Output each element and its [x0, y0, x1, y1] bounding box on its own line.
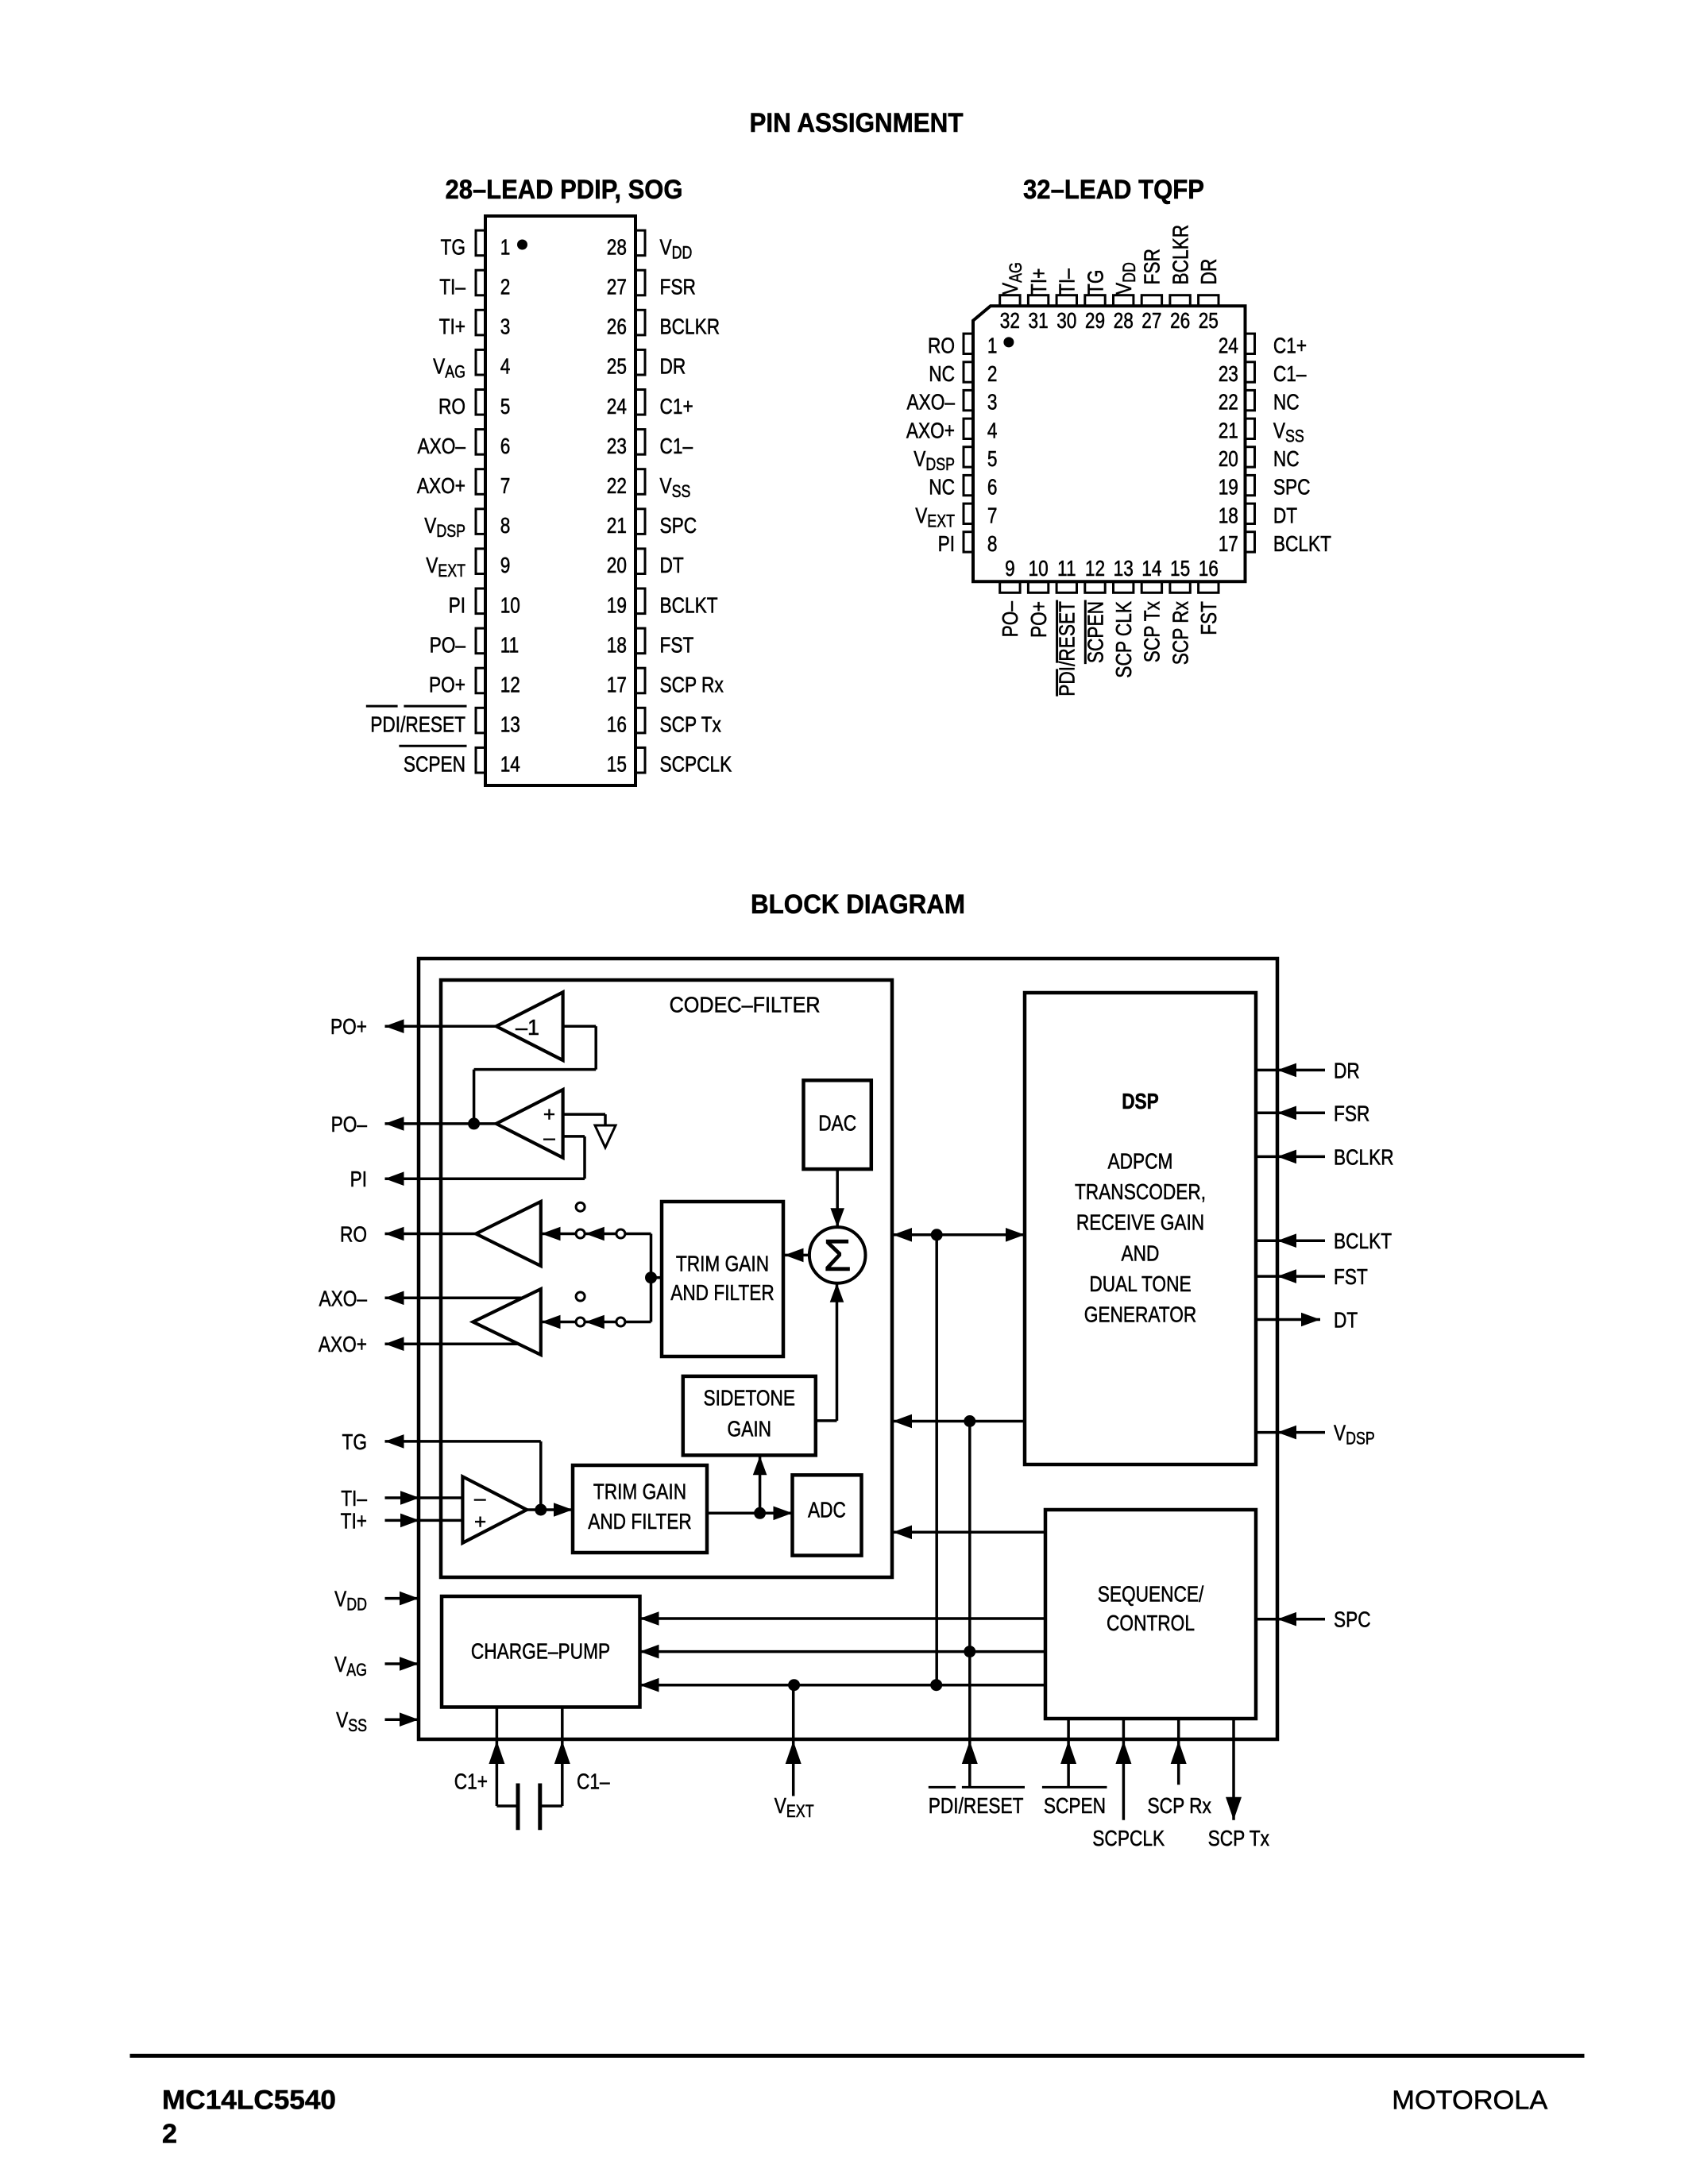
svg-text:V: V	[1273, 418, 1285, 442]
summing node sigma	[809, 1227, 866, 1283]
svg-text:8: 8	[500, 513, 511, 538]
svg-text:SPC: SPC	[660, 513, 697, 538]
TQFP pin 14 name SCP Tx	[1140, 601, 1165, 662]
PDIP pin 10 lead	[476, 588, 486, 614]
svg-text:AG: AG	[445, 362, 465, 382]
svg-text:TI+: TI+	[1026, 268, 1051, 295]
TQFP pin 28 name VDD	[1111, 262, 1139, 295]
svg-text:DSP: DSP	[436, 521, 465, 541]
block CHARGE-PUMP	[442, 1596, 640, 1707]
svg-text:AG: AG	[346, 1660, 367, 1680]
TQFP pin 3 lead	[964, 390, 973, 410]
svg-text:V: V	[424, 513, 436, 538]
TQFP pin 9 name PO–	[998, 601, 1022, 638]
PDIP pin 5 lead	[476, 390, 486, 415]
junction sidetone tap	[754, 1507, 766, 1519]
PDIP pin 2 lead	[476, 270, 486, 295]
port BCLKT label and arrow	[1256, 1239, 1325, 1242]
junction row2/PDI	[964, 1646, 975, 1657]
svg-text:EXT: EXT	[927, 511, 955, 531]
svg-text:PI: PI	[938, 531, 955, 556]
block CODEC-FILTER	[441, 980, 892, 1577]
wire switch to AXO amp with arrows	[541, 1321, 576, 1324]
svg-text:30: 30	[1056, 308, 1076, 333]
PDIP pin 7 lead	[476, 469, 486, 495]
svg-text:RO: RO	[438, 394, 465, 419]
svg-text:BCLKT: BCLKT	[1334, 1229, 1392, 1253]
op-amp A3 RO driver	[476, 1202, 541, 1266]
junction bus A	[931, 1229, 943, 1241]
svg-text:EXT: EXT	[438, 561, 465, 581]
svg-text:TRANSCODER,: TRANSCODER,	[1075, 1179, 1206, 1204]
svg-text:SCP Rx: SCP Rx	[1168, 601, 1192, 665]
svg-text:PO+: PO+	[330, 1014, 367, 1039]
svg-text:17: 17	[1219, 531, 1238, 556]
TQFP pin 18 lead	[1246, 504, 1255, 523]
TQFP pin 10 name PO+	[1026, 601, 1051, 638]
svg-text:DR: DR	[660, 354, 686, 379]
TQFP pin 12 lead	[1085, 582, 1105, 593]
switch RO contact circles	[576, 1202, 585, 1211]
op-amp A2 PO- driver	[496, 1090, 563, 1158]
svg-text:BCLKR: BCLKR	[1168, 225, 1192, 285]
TQFP pin 11 name PDI/RESET	[1055, 600, 1080, 696]
TQFP pin 26 lead	[1170, 295, 1190, 307]
TQFP pin 21 lead	[1246, 419, 1255, 438]
wire SEQUENCE to CHARGE-PUMP row 2	[640, 1650, 1046, 1653]
svg-text:SPC: SPC	[1334, 1607, 1371, 1632]
svg-text:4: 4	[500, 354, 511, 379]
svg-text:RECEIVE GAIN: RECEIVE GAIN	[1076, 1210, 1204, 1235]
svg-text:3: 3	[987, 390, 998, 415]
wire SEQUENCE to CHARGE-PUMP row 3	[640, 1684, 1046, 1687]
TQFP pin 13 lead	[1114, 582, 1134, 593]
TQFP pin 15 name SCP Rx	[1168, 601, 1192, 665]
svg-text:11: 11	[1057, 556, 1076, 581]
svg-text:CODEC–FILTER: CODEC–FILTER	[670, 992, 821, 1017]
svg-text:TG: TG	[441, 234, 466, 259]
port TG label and arrow	[385, 1434, 404, 1449]
TQFP pin 2 lead	[964, 362, 973, 382]
svg-text:V: V	[774, 1793, 786, 1818]
TQFP pin 4 lead	[964, 419, 973, 438]
wire A1 feedback to PO- node	[563, 1024, 597, 1028]
svg-text:31: 31	[1029, 308, 1049, 333]
svg-text:ADC: ADC	[808, 1498, 846, 1522]
svg-text:PO–: PO–	[998, 601, 1022, 638]
junction row3/VEXT	[788, 1679, 800, 1691]
svg-text:18: 18	[1219, 503, 1238, 527]
svg-text:TI–: TI–	[439, 275, 465, 299]
svg-text:V: V	[334, 1587, 346, 1611]
junction TRIM output	[645, 1271, 657, 1283]
block TRIM GAIN AND FILTER (transmit)	[573, 1465, 707, 1553]
TQFP pin 30 name TI–	[1055, 268, 1080, 295]
wire DSP to CODEC (receive)	[893, 1420, 1025, 1423]
svg-text:PIN ASSIGNMENT: PIN ASSIGNMENT	[750, 108, 964, 138]
svg-text:14: 14	[500, 752, 520, 777]
TQFP pin 12 name SCPEN	[1083, 600, 1107, 665]
svg-text:MOTOROLA: MOTOROLA	[1392, 2086, 1547, 2115]
wire AXO+ to op-amp A4	[385, 1342, 519, 1345]
TQFP pin 15 lead	[1170, 582, 1190, 593]
port PI label and arrow	[385, 1171, 404, 1186]
svg-text:25: 25	[607, 354, 627, 379]
svg-text:25: 25	[1199, 308, 1219, 333]
svg-text:28: 28	[607, 234, 627, 259]
svg-text:DSP: DSP	[1346, 1429, 1375, 1449]
op-amp A4 AXO driver	[473, 1289, 541, 1355]
svg-text:5: 5	[987, 446, 998, 471]
svg-text:C1–: C1–	[1273, 361, 1307, 386]
wire SIDETONE GAIN to sigma node	[816, 1419, 837, 1422]
wire AXO- to op-amp A4	[385, 1297, 523, 1300]
TQFP pin 22 lead	[1246, 390, 1255, 410]
svg-text:23: 23	[607, 434, 627, 458]
block TRIM GAIN AND FILTER (receive)	[662, 1202, 783, 1356]
PDIP pin 4 lead	[476, 349, 486, 375]
wire TG to A5 output node	[385, 1440, 541, 1443]
op-amp A5 TI input amp	[462, 1476, 527, 1543]
PDIP pin 22 lead	[635, 469, 646, 495]
block SIDETONE GAIN	[683, 1376, 816, 1456]
svg-text:CONTROL: CONTROL	[1107, 1611, 1195, 1635]
svg-text:22: 22	[607, 473, 627, 498]
port SCP Rx	[1177, 1719, 1180, 1785]
svg-text:1: 1	[987, 333, 998, 357]
PDIP pin 20 lead	[635, 549, 646, 574]
svg-text:12: 12	[1085, 556, 1105, 581]
svg-text:22: 22	[1219, 390, 1238, 415]
svg-text:RO: RO	[340, 1222, 367, 1247]
svg-text:NC: NC	[929, 475, 955, 500]
svg-text:AXO–: AXO–	[907, 390, 956, 415]
port FST label and arrow	[1256, 1275, 1325, 1278]
svg-text:SCPCLK: SCPCLK	[660, 752, 732, 777]
svg-text:8: 8	[987, 531, 998, 556]
port PO+ label and arrow	[385, 1019, 404, 1033]
svg-text:EXT: EXT	[786, 1801, 814, 1821]
svg-text:AND: AND	[1122, 1241, 1160, 1265]
capacitor C1	[496, 1804, 518, 1808]
svg-text:SCP CLK: SCP CLK	[1111, 601, 1136, 678]
TQFP pin 32 name VAG	[998, 262, 1026, 295]
svg-text:V: V	[426, 553, 438, 577]
svg-text:23: 23	[1219, 361, 1238, 386]
TQFP pin 29 lead	[1085, 295, 1105, 307]
svg-text:TRIM GAIN: TRIM GAIN	[676, 1251, 769, 1275]
ground symbol	[604, 1114, 607, 1125]
svg-text:21: 21	[1219, 418, 1238, 442]
svg-text:15: 15	[607, 752, 627, 777]
svg-text:C1–: C1–	[660, 434, 693, 458]
svg-text:V: V	[334, 1652, 346, 1677]
svg-text:SCPEN: SCPEN	[404, 752, 465, 777]
port AXO- label and arrow	[385, 1291, 404, 1306]
TQFP pin 7 lead	[964, 504, 973, 523]
svg-text:AXO–: AXO–	[418, 434, 466, 458]
TQFP pin 29 name TG	[1083, 270, 1107, 295]
TQFP pin 32 lead	[1000, 295, 1020, 307]
svg-text:DAC: DAC	[818, 1110, 856, 1135]
svg-text:AXO–: AXO–	[319, 1286, 368, 1310]
svg-text:ADPCM: ADPCM	[1108, 1149, 1173, 1174]
svg-text:15: 15	[1170, 556, 1190, 581]
svg-text:SS: SS	[1285, 426, 1304, 446]
PDIP pin 13 lead	[476, 708, 486, 733]
svg-text:SPC: SPC	[1273, 475, 1311, 500]
TQFP pin 28 lead	[1114, 295, 1134, 307]
svg-text:24: 24	[607, 394, 627, 419]
wire PO+ to op-amp A1	[385, 1024, 496, 1028]
PDIP pin 14 lead	[476, 747, 486, 773]
svg-text:7: 7	[987, 503, 998, 527]
PDIP pin 16 lead	[635, 708, 646, 733]
svg-text:V: V	[1111, 283, 1136, 295]
TQFP package body U2	[973, 306, 1246, 581]
svg-text:V: V	[915, 503, 927, 527]
svg-text:4: 4	[987, 418, 998, 442]
port RO label and arrow	[385, 1227, 404, 1241]
wire TRIM(transmit) output to ADC	[707, 1512, 793, 1515]
svg-text:+: +	[474, 1510, 486, 1534]
wire vertical bus B down (PDI/RESET)	[968, 1422, 971, 1787]
junction bus B	[964, 1415, 975, 1427]
svg-text:BCLKT: BCLKT	[660, 592, 718, 617]
svg-text:TRIM GAIN: TRIM GAIN	[593, 1480, 686, 1504]
svg-text:AND FILTER: AND FILTER	[670, 1280, 774, 1305]
PDIP package body U1	[485, 216, 635, 785]
PDIP pin 8 lead	[476, 509, 486, 534]
TQFP pin 25 lead	[1199, 295, 1219, 307]
svg-text:FST: FST	[660, 632, 694, 657]
svg-text:CHARGE–PUMP: CHARGE–PUMP	[471, 1639, 610, 1664]
svg-text:RO: RO	[928, 333, 955, 357]
TQFP pin 16 lead	[1199, 582, 1219, 593]
svg-text:21: 21	[607, 513, 627, 538]
svg-text:AND FILTER: AND FILTER	[588, 1509, 692, 1534]
wire RO to op-amp A3	[385, 1233, 477, 1236]
PDIP pin 15 lead	[635, 747, 646, 773]
svg-text:28: 28	[1114, 308, 1134, 333]
wire DAC to sigma node	[836, 1169, 839, 1227]
svg-text:GENERATOR: GENERATOR	[1084, 1302, 1197, 1327]
block DAC	[804, 1080, 871, 1169]
wire sigma to TRIM(receive)	[783, 1254, 809, 1257]
TQFP pin 31 name TI+	[1026, 268, 1051, 295]
wire C1- from charge pump	[561, 1707, 564, 1807]
svg-text:DR: DR	[1334, 1058, 1360, 1082]
svg-text:26: 26	[607, 314, 627, 339]
port SCP Tx (output)	[1232, 1719, 1235, 1820]
svg-text:10: 10	[500, 592, 520, 617]
bus CODEC to DSP bidirectional	[893, 1233, 1025, 1237]
TQFP pin 8 lead	[964, 532, 973, 552]
TQFP pin 11 lead	[1056, 582, 1076, 593]
svg-text:20: 20	[607, 553, 627, 577]
TQFP pin 27 lead	[1141, 295, 1161, 307]
svg-text:24: 24	[1219, 333, 1238, 357]
svg-text:FSR: FSR	[1334, 1101, 1369, 1125]
svg-text:SCP Tx: SCP Tx	[1140, 601, 1165, 662]
svg-text:1: 1	[500, 234, 511, 259]
svg-text:C1–: C1–	[577, 1769, 610, 1794]
TQFP pin 1 lead	[964, 334, 973, 353]
port VDSP label and arrow	[1256, 1431, 1325, 1434]
svg-text:DSP: DSP	[1122, 1089, 1159, 1113]
svg-text:SCPCLK: SCPCLK	[1092, 1826, 1165, 1850]
svg-text:DD: DD	[1119, 262, 1139, 283]
svg-text:16: 16	[1199, 556, 1219, 581]
svg-text:–: –	[474, 1486, 486, 1510]
svg-text:29: 29	[1085, 308, 1105, 333]
PDIP pin 1 lead	[476, 230, 486, 256]
PDIP pin 1 index dot	[517, 240, 527, 250]
svg-text:2: 2	[987, 361, 998, 386]
PDIP pin 19 lead	[635, 588, 646, 614]
svg-text:9: 9	[500, 553, 511, 577]
svg-text:C1+: C1+	[1273, 333, 1307, 357]
svg-text:V: V	[660, 473, 672, 498]
svg-text:AXO+: AXO+	[417, 473, 465, 498]
PDIP pin 11 lead	[476, 628, 486, 654]
svg-text:BCLKT: BCLKT	[1273, 531, 1331, 556]
svg-text:+: +	[543, 1102, 555, 1126]
svg-text:17: 17	[607, 673, 627, 697]
svg-text:AXO+: AXO+	[319, 1332, 367, 1356]
svg-text:TI+: TI+	[341, 1508, 367, 1533]
TQFP pin 25 name DR	[1196, 259, 1221, 285]
svg-text:SCP Tx: SCP Tx	[660, 712, 721, 737]
svg-text:PO+: PO+	[429, 673, 465, 697]
svg-text:6: 6	[500, 434, 511, 458]
block SEQUENCE/CONTROL	[1045, 1510, 1256, 1719]
svg-text:6: 6	[987, 475, 998, 500]
chip outer boundary box	[419, 959, 1277, 1739]
svg-text:18: 18	[607, 632, 627, 657]
junction A5 output TG tap	[535, 1504, 547, 1516]
port SPC label and arrow	[1256, 1618, 1325, 1621]
svg-text:10: 10	[1029, 556, 1049, 581]
port BCLKR label and arrow	[1256, 1156, 1325, 1159]
svg-text:SS: SS	[672, 481, 691, 501]
TQFP pin 6 lead	[964, 475, 973, 495]
svg-text:V: V	[914, 446, 925, 471]
TQFP pin 24 lead	[1246, 334, 1255, 353]
PDIP pin 17 lead	[635, 668, 646, 693]
TQFP pin 23 lead	[1246, 362, 1255, 382]
svg-text:DR: DR	[1196, 259, 1221, 285]
svg-text:7: 7	[500, 473, 511, 498]
wire C1+ from charge pump	[496, 1707, 499, 1807]
PDIP pin 24 lead	[635, 390, 646, 415]
svg-text:SCP Tx: SCP Tx	[1208, 1826, 1269, 1850]
wire tap to SIDETONE GAIN	[759, 1456, 762, 1513]
svg-text:TI–: TI–	[341, 1486, 367, 1511]
block ADC	[793, 1475, 862, 1555]
svg-text:DUAL TONE: DUAL TONE	[1089, 1271, 1191, 1296]
svg-text:2: 2	[500, 275, 511, 299]
svg-text:TI+: TI+	[439, 314, 465, 339]
svg-text:V: V	[433, 354, 445, 379]
svg-text:FSR: FSR	[1140, 249, 1165, 284]
wire TRIM(receive) output tee	[650, 1234, 653, 1322]
svg-text:C1+: C1+	[660, 394, 693, 419]
svg-text:19: 19	[1219, 475, 1238, 500]
svg-text:C1+: C1+	[454, 1769, 488, 1794]
TQFP pin 10 lead	[1028, 582, 1048, 593]
port SCPCLK	[1122, 1719, 1126, 1820]
TQFP pin 16 name FST	[1196, 601, 1221, 635]
PDIP pin 3 lead	[476, 310, 486, 335]
svg-text:DSP: DSP	[925, 454, 955, 474]
TQFP pin 5 lead	[964, 447, 973, 467]
svg-text:3: 3	[500, 314, 511, 339]
svg-text:SCPEN: SCPEN	[1083, 601, 1107, 663]
svg-text:13: 13	[1114, 556, 1134, 581]
svg-text:12: 12	[500, 673, 520, 697]
svg-text:FST: FST	[1334, 1264, 1368, 1289]
port DR label and arrow	[1256, 1069, 1325, 1072]
wire vertical bus A down	[935, 1235, 938, 1685]
svg-text:PO+: PO+	[1026, 601, 1051, 638]
TQFP pin 1 index dot	[1003, 337, 1014, 347]
svg-text:–: –	[543, 1125, 555, 1149]
svg-text:14: 14	[1141, 556, 1161, 581]
TQFP pin 27 name FSR	[1140, 249, 1165, 284]
svg-text:TG: TG	[342, 1430, 368, 1454]
port AXO+ label and arrow	[385, 1337, 404, 1351]
TQFP pin 26 name BCLKR	[1168, 225, 1192, 285]
svg-text:V: V	[660, 234, 672, 259]
svg-text:DT: DT	[660, 553, 684, 577]
PDIP pin 18 lead	[635, 628, 646, 654]
svg-text:FST: FST	[1196, 601, 1221, 635]
wire SEQUENCE/CONTROL to CODEC	[893, 1531, 1045, 1534]
svg-text:32: 32	[1000, 308, 1020, 333]
svg-text:BCLKR: BCLKR	[660, 314, 720, 339]
svg-text:2: 2	[162, 2119, 177, 2149]
svg-text:TG: TG	[1083, 270, 1107, 295]
op-amp A1 inverting -1	[496, 992, 563, 1060]
svg-text:Σ: Σ	[824, 1230, 852, 1281]
PDIP pin 27 lead	[635, 270, 646, 295]
TQFP pin 20 lead	[1246, 447, 1255, 467]
svg-text:27: 27	[1141, 308, 1161, 333]
switch AXO contact circles	[576, 1292, 585, 1301]
svg-text:PDI/RESET: PDI/RESET	[929, 1793, 1024, 1818]
junction PO- node	[468, 1117, 480, 1129]
wire SEQUENCE to CHARGE-PUMP row 1	[640, 1617, 1046, 1620]
PDIP pin 23 lead	[635, 430, 646, 455]
svg-text:PI: PI	[350, 1167, 367, 1191]
svg-text:SCPEN: SCPEN	[1044, 1793, 1106, 1818]
svg-text:V: V	[336, 1707, 348, 1732]
PDIP pin 6 lead	[476, 430, 486, 455]
svg-text:NC: NC	[1273, 390, 1300, 415]
TQFP pin 17 lead	[1246, 532, 1255, 552]
svg-text:PI: PI	[449, 592, 465, 617]
svg-text:PDI/RESET: PDI/RESET	[370, 712, 465, 737]
junction row3/busA	[930, 1679, 942, 1691]
port PO- label and arrow	[385, 1117, 404, 1131]
block DSP	[1025, 993, 1256, 1464]
PDIP pin 9 lead	[476, 549, 486, 574]
svg-text:SIDETONE: SIDETONE	[704, 1385, 796, 1410]
svg-text:5: 5	[500, 394, 511, 419]
svg-text:DT: DT	[1273, 503, 1297, 527]
svg-text:DT: DT	[1334, 1308, 1358, 1333]
